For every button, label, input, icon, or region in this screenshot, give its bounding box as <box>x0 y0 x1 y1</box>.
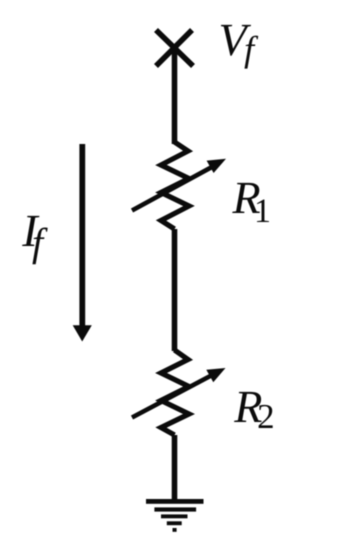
wire from R2 to ground <box>172 435 178 501</box>
resistor R1 variable arrow <box>132 159 226 211</box>
label Vf : subscript f <box>245 36 259 69</box>
label If : I <box>22 216 39 246</box>
resistor R2 zigzag <box>161 350 189 435</box>
resistor R1 zigzag <box>161 142 189 229</box>
current arrow If <box>73 144 92 342</box>
resistor R2 variable arrow <box>132 368 226 418</box>
label R1 : subscript 1 <box>257 200 269 222</box>
node Vf terminal X <box>156 30 193 66</box>
wire between R1 and R2 <box>172 229 178 351</box>
label R1 : R <box>232 183 260 213</box>
label R2 : subscript 2 <box>259 405 273 428</box>
label R2 : R <box>234 392 262 422</box>
wire from Vf X down to R1 <box>172 47 178 144</box>
ground symbol <box>146 499 204 532</box>
label If : subscript f <box>32 228 47 265</box>
label Vf : V <box>221 25 251 56</box>
